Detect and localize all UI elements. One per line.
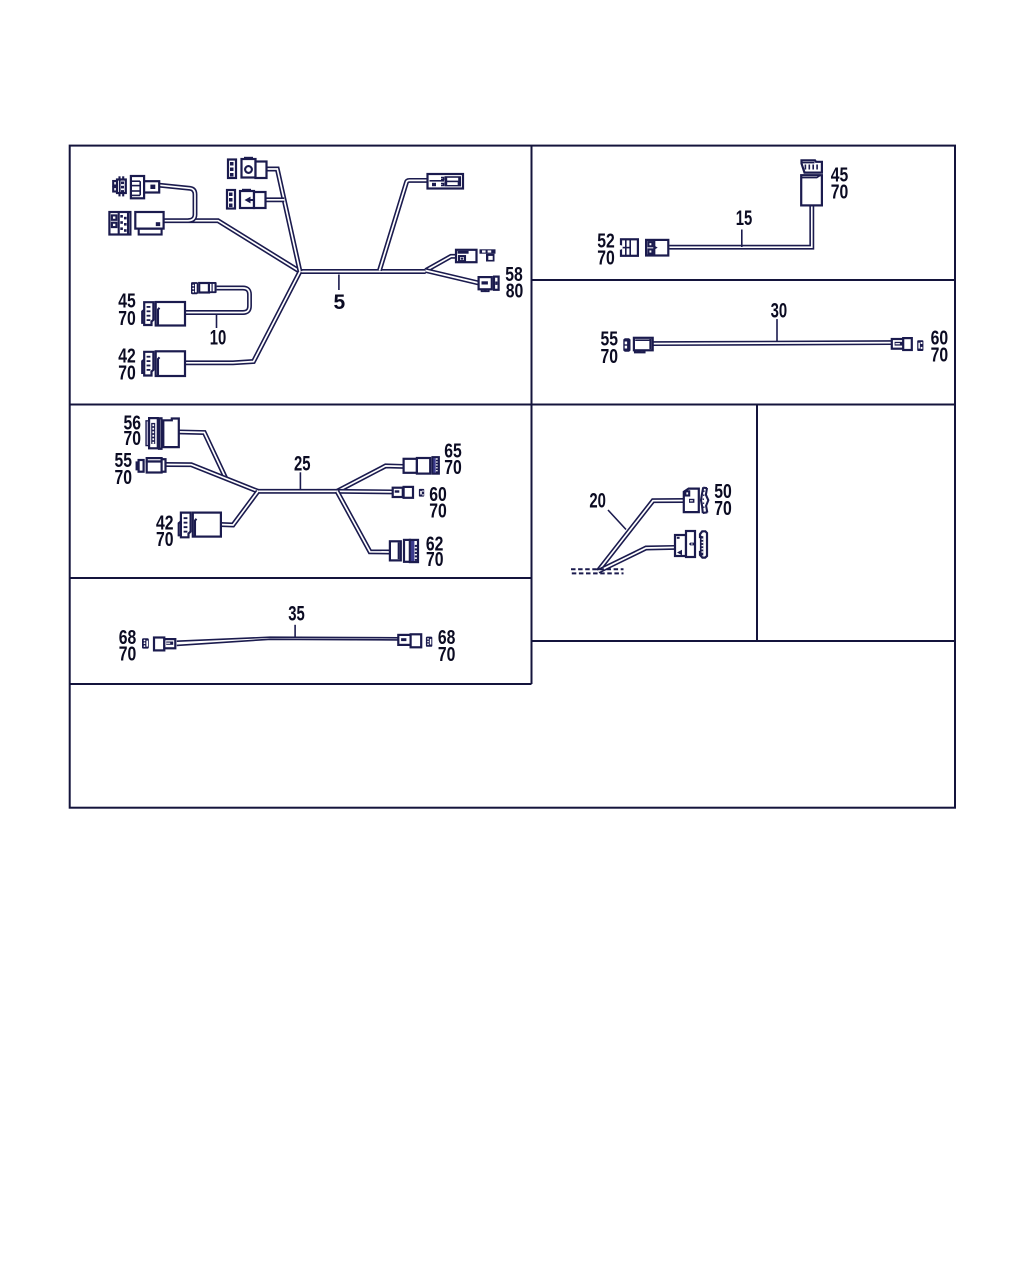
svg-text:70: 70 — [426, 549, 444, 571]
vertical divider center — [531, 146, 533, 684]
svg-text:70: 70 — [118, 362, 136, 384]
connector 68/70 left body — [154, 638, 175, 651]
wire junction to 60/70 — [337, 489, 393, 495]
label 62/70 — [426, 534, 444, 572]
label 60/70 (panel4) — [429, 484, 447, 523]
label 52/70 — [597, 231, 615, 270]
connector 55/70 body (panel4) — [147, 458, 166, 472]
wire 56/70 to junction — [179, 432, 226, 478]
connector 52/70 mate — [646, 240, 668, 256]
svg-text:35: 35 — [288, 602, 305, 625]
svg-text:30: 30 — [771, 299, 788, 322]
terminal pin piece — [494, 277, 499, 290]
pin block small lower — [227, 190, 235, 209]
label 15 with tick — [736, 207, 753, 247]
horizontal divider right bottom — [532, 640, 956, 642]
connector 56/70 pin block — [146, 418, 158, 448]
frame outer — [70, 146, 955, 808]
harness 25 trunk — [258, 489, 337, 494]
connector right fork lower — [479, 277, 492, 291]
label 42/70 (panel4) — [156, 512, 174, 551]
wire 42/70 to junction — [220, 491, 258, 525]
connector 45/70 cap (panel2) — [802, 160, 822, 172]
connector 62/70 — [390, 540, 418, 562]
label 10 with tick — [210, 314, 227, 350]
svg-text:70: 70 — [444, 457, 462, 479]
connector 50/70 body — [684, 489, 699, 512]
connector 56/70 body — [159, 418, 179, 449]
svg-text:70: 70 — [156, 529, 174, 551]
connector 42/70 pin block (panel4) — [179, 513, 191, 538]
svg-text:70: 70 — [831, 181, 849, 203]
horizontal divider full width — [70, 404, 955, 406]
connector box left — [135, 212, 163, 235]
connector body top-left — [131, 176, 159, 198]
dashed harness stub row 2 — [572, 572, 624, 574]
svg-text:70: 70 — [597, 248, 615, 270]
wire to 42/70 connector — [185, 272, 300, 363]
wire curved from top-left plug — [159, 185, 195, 220]
connector top-right multi-way — [428, 174, 464, 189]
connector 45/70 pin block — [142, 302, 153, 325]
connector 42/70 body (panel1) — [156, 351, 185, 376]
label 58/80 — [505, 264, 523, 303]
connector 45/70 body (panel2) — [801, 175, 822, 205]
svg-text:5: 5 — [333, 291, 345, 314]
label 20 with leader — [589, 490, 626, 530]
label 55/70 (panel3) — [601, 329, 619, 368]
horizontal divider right upper — [532, 279, 956, 281]
terminal flag piece — [480, 249, 496, 261]
svg-text:70: 70 — [429, 501, 447, 523]
svg-text:80: 80 — [506, 281, 524, 303]
label 68/70 right — [438, 627, 456, 666]
label 45/70 (panel2) — [831, 165, 849, 204]
connector 42/70 pin block (panel1) — [142, 352, 153, 376]
connector with arrow symbol — [240, 189, 266, 208]
label 42/70 (panel1) — [118, 346, 136, 385]
connector 68/70 right body — [398, 634, 421, 647]
pin grid icon left — [109, 212, 130, 235]
wire fork to upper-right connector — [426, 256, 456, 270]
wire 55/70 to junction — [166, 465, 259, 492]
label 25 with tick — [294, 452, 311, 489]
connector 20 lower terminal strip — [700, 531, 707, 557]
pin icon top-left — [113, 176, 126, 196]
harness 20 wire lower — [598, 547, 675, 571]
svg-text:70: 70 — [601, 346, 619, 368]
svg-text:10: 10 — [210, 326, 227, 349]
connector 55/70 body (panel3) — [634, 338, 653, 353]
connector with circle symbol — [242, 157, 267, 178]
connector 60/70 body (panel3) — [892, 338, 912, 350]
wire from arrow connector down to junction — [266, 197, 285, 202]
svg-text:70: 70 — [114, 467, 132, 489]
connector 42/70 body (panel4) — [193, 513, 221, 537]
svg-text:25: 25 — [294, 452, 311, 475]
harness 35 wire — [177, 637, 398, 645]
connector 60/70 pin piece (panel3) — [917, 340, 923, 351]
wire junction to 65/70 — [337, 466, 404, 491]
connector 20 lower body — [675, 531, 695, 557]
svg-text:70: 70 — [714, 498, 732, 520]
connector 50/70 terminal strip — [701, 487, 708, 513]
svg-text:15: 15 — [736, 207, 753, 230]
wire diagonal to top-right connector — [380, 180, 429, 270]
label 45/70 — [118, 291, 136, 330]
harness 15 wire — [669, 206, 812, 248]
harness 30 wire — [653, 343, 892, 344]
svg-text:70: 70 — [119, 644, 137, 666]
horizontal divider left bottom — [70, 683, 532, 685]
wire branch to upper-left assembly — [164, 221, 300, 272]
connector 68/70 right pin piece — [426, 637, 432, 647]
connector 65/70 — [404, 457, 439, 473]
connector 55/70 pin piece — [623, 338, 630, 352]
svg-text:20: 20 — [589, 490, 606, 513]
label 5 with tick — [333, 275, 345, 315]
label 65/70 — [444, 440, 462, 479]
label 55/70 (panel4) — [114, 450, 132, 489]
dashed harness stub row 1 — [571, 568, 624, 570]
connector 60/70 (panel4) — [393, 487, 424, 498]
connector right fork upper — [456, 250, 477, 262]
connector 52/70 grid block — [618, 239, 638, 256]
connector 55/70 pin piece (panel4) — [137, 460, 144, 472]
vertical divider right panel — [756, 405, 758, 642]
svg-text:70: 70 — [118, 308, 136, 330]
label 60/70 (panel3) — [931, 328, 949, 367]
diagram outer border — [70, 146, 955, 808]
horizontal divider left lower — [70, 577, 532, 579]
label 68/70 left — [119, 627, 137, 666]
svg-text:70: 70 — [931, 344, 949, 366]
harness 10 wire — [185, 288, 250, 313]
label 30 with tick — [771, 299, 788, 341]
connector 45/70 body — [156, 302, 185, 326]
label 35 with tick — [288, 602, 305, 637]
wire junction to 62/70 — [337, 491, 390, 552]
svg-text:70: 70 — [438, 644, 456, 666]
wire fork to lower-right connector — [426, 271, 479, 284]
label 56/70 — [123, 412, 141, 450]
wire trunk harness 5 — [300, 269, 426, 274]
svg-text:70: 70 — [123, 428, 141, 450]
label 50/70 — [714, 481, 732, 520]
connector 68/70 left pin piece — [142, 638, 149, 648]
wire from circle connector down to junction — [267, 169, 301, 272]
harness 20 wire upper — [598, 501, 684, 572]
pin block small upper — [228, 160, 236, 179]
harness 10 small connector — [191, 282, 217, 294]
